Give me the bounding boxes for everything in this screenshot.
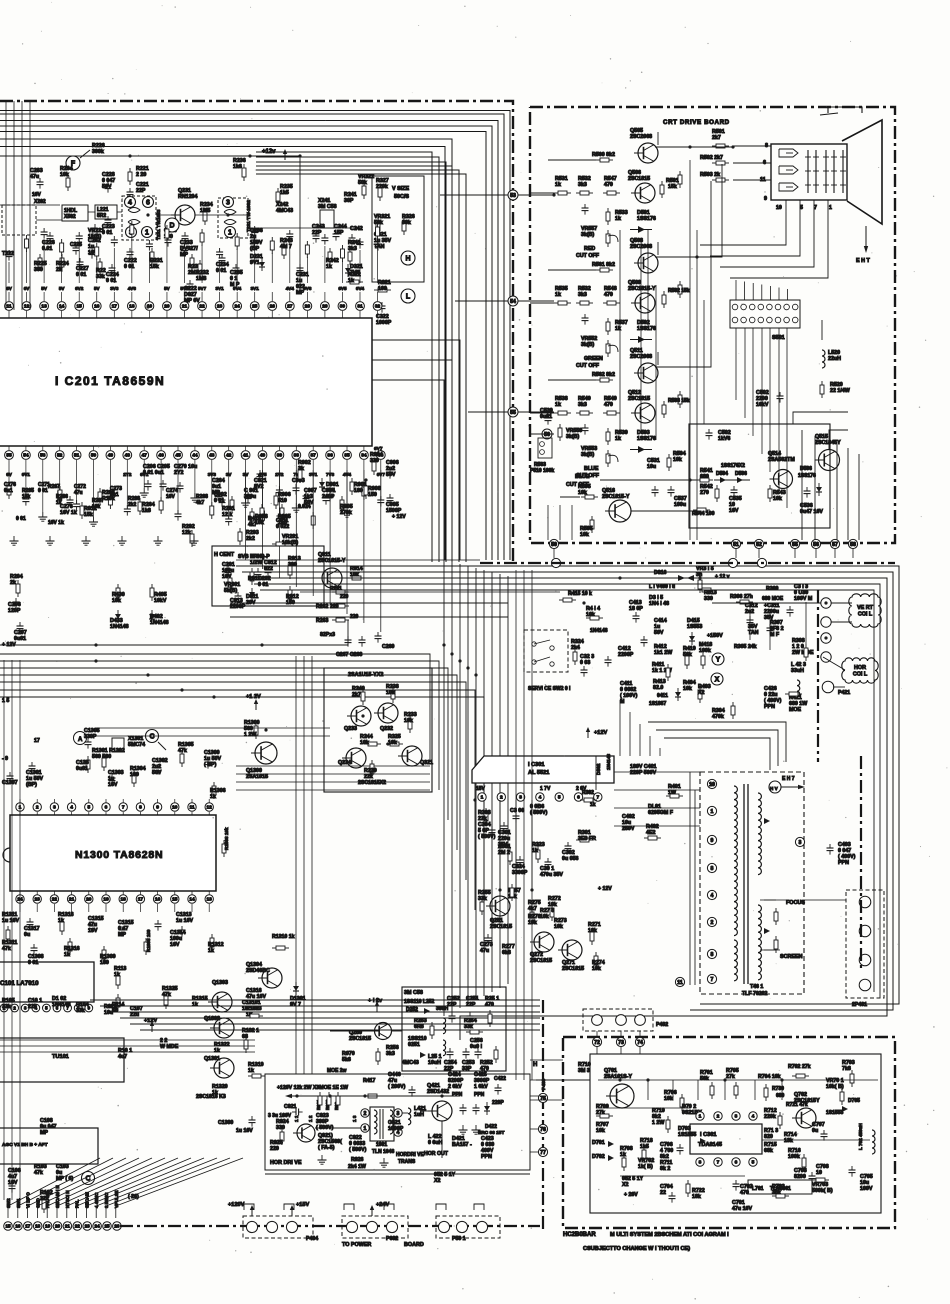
svg-text:D594: D594: [716, 471, 728, 477]
svg-text:2k2: 2k2: [246, 536, 255, 542]
transistor Q1301: [214, 1058, 234, 1078]
resistor R225 390: [39, 254, 41, 258]
svg-text:3k3: 3k3: [578, 402, 587, 408]
svg-text:2k: 2k: [10, 580, 16, 586]
transistor Q1303: [212, 992, 232, 1012]
svg-text:21: 21: [65, 1224, 71, 1229]
label EHT arrow: [865, 226, 867, 248]
svg-text:0u: 0u: [812, 1128, 818, 1134]
capacitor C262 1u 16V: [91, 248, 93, 252]
resistor R908 150: [365, 482, 367, 486]
svg-text:10k(B): 10k(B): [282, 540, 298, 546]
transistor Q515 2SC1845Y: [819, 450, 840, 471]
pot VR221 1k(B): [94, 224, 96, 228]
node D: [165, 218, 179, 232]
svg-text:X: X: [715, 677, 720, 684]
svg-text:Q232: Q232: [380, 726, 393, 732]
resistor R538 1k: [554, 412, 558, 414]
svg-text:0 01: 0 01: [216, 268, 226, 274]
transistor Q512 2SC1815: [635, 403, 655, 423]
svg-text:PPN: PPN: [481, 1154, 492, 1160]
capacitor C1305 330P: [87, 738, 89, 742]
svg-text:35: 35: [344, 453, 350, 459]
resistor R239 22k: [371, 760, 373, 764]
svg-text:47k: 47k: [178, 748, 187, 754]
wire right chain mid: [860, 756, 862, 968]
svg-text:11: 11: [677, 980, 683, 986]
resistor R322 1k: [346, 281, 350, 283]
svg-text:P602: P602: [386, 1236, 398, 1242]
N1300 TA8628N PAL/SECAM IC: [10, 815, 216, 891]
svg-text:R305 24k: R305 24k: [734, 644, 757, 650]
svg-text:29: 29: [322, 304, 328, 310]
svg-text:10kV: 10kV: [154, 598, 167, 604]
svg-text:3V: 3V: [226, 472, 233, 477]
transistor Q505 2SC2068: [638, 143, 658, 163]
resistor R113 1k: [117, 972, 119, 976]
wire left edge verticals lower: [3, 660, 5, 1200]
IC301 AL5521: [472, 756, 614, 783]
P402 connector: [583, 1009, 653, 1031]
svg-text:10k: 10k: [112, 598, 121, 604]
resistor channel pull 1: [679, 281, 681, 285]
wire horizontal bus mid: [0, 654, 430, 760]
svg-text:R593 15k: R593 15k: [668, 398, 690, 404]
capacitor C921 8V2: [259, 470, 261, 474]
svg-text:2k2: 2k2: [128, 502, 137, 508]
resistor R234 1M5: [204, 208, 206, 212]
svg-text:4: 4: [70, 805, 73, 811]
svg-text:L: L: [406, 294, 411, 301]
chain vertical right mid: [817, 590, 819, 762]
sub-board chain border bottom right: [563, 1037, 895, 1228]
svg-text:Q233: Q233: [344, 726, 357, 732]
svg-text:HC2B0BAR: HC2B0BAR: [563, 1232, 596, 1238]
pin 4 circle: [394, 1128, 402, 1136]
CRT cathode 3: [779, 183, 798, 191]
resistor R240 2k7: [362, 688, 364, 692]
svg-text:270k: 270k: [340, 510, 352, 516]
svg-text:1000P: 1000P: [376, 320, 392, 326]
svg-text:R417: R417: [363, 1078, 376, 1084]
svg-text:100k: 100k: [699, 648, 711, 654]
outer box V-size: [372, 176, 424, 282]
wire vert coil links: [831, 602, 852, 604]
svg-text:2200P: 2200P: [618, 652, 634, 658]
resistor R326 39k: [403, 218, 405, 222]
svg-text:TLN 1046: TLN 1046: [372, 1149, 394, 1155]
wire horizontal bus mid1: [0, 620, 348, 645]
svg-text:390: 390: [288, 562, 297, 568]
svg-text:4u7: 4u7: [118, 1054, 127, 1060]
svg-text:0u01: 0u01: [76, 766, 88, 772]
resistor R913 390: [289, 562, 291, 566]
svg-text:+150V: +150V: [707, 633, 723, 639]
svg-text:50V: 50V: [304, 500, 314, 506]
svg-text:0V: 0V: [6, 472, 13, 477]
svg-text:19: 19: [103, 897, 109, 903]
svg-text:2SC1815X2: 2SC1815X2: [358, 780, 386, 786]
pin 3 circle: [394, 1109, 402, 1117]
wire nested right corners: [793, 412, 848, 424]
svg-text:1N4148: 1N4148: [110, 624, 129, 630]
capacitor C235 0.1 MP: [235, 264, 237, 268]
capacitor C222b: [189, 280, 191, 284]
wire channel feed: [530, 302, 554, 304]
svg-text:3M C58: 3M C58: [404, 990, 423, 996]
svg-text:56k: 56k: [700, 1076, 709, 1082]
svg-text:50V: 50V: [654, 630, 664, 636]
svg-text:10k: 10k: [554, 924, 563, 930]
svg-text:TRANS: TRANS: [398, 1159, 416, 1165]
svg-text:1SS110 L252: 1SS110 L252: [404, 999, 435, 1005]
label +12V ic301: [587, 730, 589, 738]
svg-text:0V6: 0V6: [303, 286, 312, 291]
resistor R531 1k: [554, 192, 558, 194]
svg-text:H CENT: H CENT: [214, 552, 235, 558]
svg-text:0 01: 0 01: [124, 264, 134, 270]
svg-text:TU101: TU101: [52, 1054, 69, 1060]
svg-text:23: 23: [35, 897, 41, 903]
svg-text:+ 12V: + 12V: [598, 886, 612, 892]
svg-text:P421: P421: [838, 690, 850, 696]
svg-text:10k: 10k: [773, 496, 782, 502]
CRT cathode 1: [779, 149, 798, 157]
svg-text:R309: R309: [766, 586, 779, 592]
svg-text:R263: R263: [316, 618, 329, 624]
resistor R238 10k: [392, 686, 394, 690]
resistor R271 10k: [591, 928, 593, 932]
svg-text:3k3: 3k3: [578, 182, 587, 188]
bottom connector pin row: [4, 1222, 13, 1231]
resistor R592 15k: [663, 291, 665, 295]
svg-text:2SA1015: 2SA1015: [246, 774, 268, 780]
node 76: [538, 1124, 547, 1133]
wire EHT riser: [821, 320, 823, 340]
svg-text:7k8: 7k8: [842, 1066, 851, 1072]
svg-text:R592 15k: R592 15k: [668, 288, 690, 294]
svg-text:0u47 16V: 0u47 16V: [800, 509, 823, 515]
svg-text:27: 27: [287, 304, 293, 310]
svg-text:C3 06: C3 06: [510, 808, 524, 814]
svg-text:4: 4: [752, 1114, 755, 1120]
capacitor C283 47u 16V: [39, 178, 41, 182]
capacitor C302 0u056: [567, 842, 569, 846]
svg-text:T46 1: T46 1: [750, 984, 763, 990]
IC301 pins: [478, 793, 486, 801]
svg-text:24: 24: [95, 1224, 101, 1229]
svg-text:17: 17: [34, 738, 40, 744]
svg-text:1: 1: [228, 230, 232, 237]
svg-text:S501: S501: [772, 335, 785, 341]
svg-text:0 01: 0 01: [102, 230, 112, 236]
wire +12V rail top: [0, 155, 300, 157]
svg-text:6: 6: [577, 795, 580, 801]
wire long mid verticals right: [515, 570, 517, 1080]
svg-text:C1309: C1309: [218, 1120, 233, 1126]
svg-text:470: 470: [604, 292, 613, 298]
svg-text:100: 100: [378, 286, 387, 292]
svg-text:RED: RED: [584, 246, 595, 252]
capacitor C313 cap: [789, 606, 791, 610]
svg-text:3k(B): 3k(B): [581, 452, 594, 458]
svg-text:+120V 12k 2W X3MOE 1E 1W: +120V 12k 2W X3MOE 1E 1W: [277, 1085, 348, 1091]
capacitor C224 0.01: [111, 264, 113, 268]
transistor Q272 2SC1815: [534, 932, 554, 952]
label +120V: [251, 1208, 253, 1216]
svg-text:24: 24: [234, 304, 240, 310]
N1300 bottom pins: [16, 895, 24, 903]
svg-text:1M5: 1M5: [200, 208, 210, 214]
svg-text:6V5: 6V5: [338, 286, 347, 291]
svg-text:12: 12: [24, 304, 30, 310]
svg-text:MOE: MOE: [789, 707, 802, 713]
svg-text:0 01: 0 01: [214, 498, 224, 504]
resistor R22 33k: [99, 258, 101, 262]
svg-text:10k: 10k: [388, 740, 397, 746]
N1300 top pins: [16, 803, 24, 811]
svg-text:22: 22: [75, 1224, 81, 1229]
resistor R321 100: [374, 289, 378, 291]
pot VR553 3k(B): [607, 450, 609, 454]
svg-text:1S1555: 1S1555: [826, 1110, 843, 1116]
svg-text:022: 022: [264, 566, 273, 572]
svg-text:V SIZE: V SIZE: [392, 186, 409, 192]
svg-text:2SC1815: 2SC1815: [628, 176, 650, 182]
wire mid verticals to hor drive: [295, 656, 297, 1074]
svg-text:6V4: 6V4: [356, 286, 365, 291]
svg-text:2: 2: [717, 1114, 720, 1120]
tuner AGC box: [0, 1128, 98, 1164]
svg-text:15k: 15k: [668, 184, 677, 190]
wire L421 to Q421: [420, 1110, 432, 1112]
resistor R235 1k5: [277, 188, 279, 192]
svg-text:R302: R302: [582, 790, 594, 796]
wire nested loop inner: [254, 584, 880, 998]
svg-text:10k: 10k: [596, 1128, 605, 1134]
capacitor C267: [347, 636, 349, 640]
wire CRT cathode feeds: [733, 145, 771, 147]
svg-text:5V: 5V: [59, 286, 66, 291]
svg-text:22P: 22P: [466, 1002, 476, 1008]
svg-text:56: 56: [544, 432, 550, 438]
wire hor section box: [265, 1074, 530, 1170]
node 55: [508, 407, 518, 417]
resistor R1300 560 1/2W: [255, 722, 257, 726]
svg-text:1k: 1k: [615, 216, 621, 222]
T461 pin 2: [707, 917, 716, 926]
svg-text:3300P: 3300P: [512, 870, 528, 876]
svg-text:4V4: 4V4: [286, 286, 295, 291]
capacitor C903: [295, 484, 297, 488]
diode D422: [486, 1102, 488, 1106]
wire horizontal bus mid: [0, 690, 475, 910]
svg-text:8: 8: [711, 952, 714, 958]
svg-text:5MC74: 5MC74: [128, 742, 145, 748]
svg-text:COI L: COI L: [858, 612, 873, 618]
resistor R1301 560: [87, 756, 89, 760]
svg-text:6R8: 6R8: [414, 1024, 424, 1030]
svg-text:9: 9: [764, 196, 767, 202]
svg-text:1SS176: 1SS176: [637, 326, 656, 332]
capacitor C537 100u: [670, 486, 672, 490]
svg-text:- 9: - 9: [2, 756, 8, 762]
svg-text:10k: 10k: [580, 532, 589, 538]
resistor R532 3k3: [576, 302, 580, 304]
svg-text:220k: 220k: [376, 184, 388, 190]
svg-text:2SC2068: 2SC2068: [630, 134, 652, 140]
svg-text:Q1301: Q1301: [204, 1056, 220, 1062]
svg-text:FOCUS: FOCUS: [786, 900, 805, 906]
transistor Q233: [351, 706, 371, 726]
svg-text:220: 220: [270, 1146, 279, 1152]
resistor R231 15k: [151, 248, 153, 252]
capacitor hor out 1: [462, 1104, 464, 1108]
diode D231: [261, 258, 263, 262]
svg-text:2SA101S-Y: 2SA101S-Y: [604, 1074, 632, 1080]
svg-text:X502: X502: [64, 214, 76, 220]
resistor R323 1k: [537, 846, 539, 850]
wire vertical risers from connectors: [553, 549, 555, 558]
resistor R241 3k3: [349, 248, 351, 252]
svg-text:COI L: COI L: [853, 672, 868, 678]
resistor R562 8k2: [596, 379, 600, 381]
svg-text:1 1: 1 1: [294, 1115, 299, 1122]
resistor R560 8k2: [596, 159, 600, 161]
node 74: [635, 1037, 644, 1046]
svg-text:2: 2: [36, 805, 39, 811]
svg-text:( FA-5): ( FA-5): [318, 1145, 335, 1151]
svg-text:T231 TW1083: T231 TW1083: [156, 209, 162, 240]
resistor R1316 1k: [69, 938, 71, 942]
tuner can T222: [2, 205, 36, 235]
wire horizontal mid long1: [230, 602, 508, 604]
svg-text:PPN: PPN: [764, 704, 775, 710]
svg-text:SERVI CE SW2 0 I: SERVI CE SW2 0 I: [528, 686, 571, 692]
svg-text:1u 16V: 1u 16V: [242, 1006, 260, 1012]
wire chain below crt: [480, 562, 895, 564]
svg-text:32: 32: [375, 304, 381, 310]
svg-text:18k: 18k: [692, 1194, 701, 1200]
capacitor C322 1000P: [381, 302, 383, 306]
resistor R325 10k: [386, 743, 390, 745]
svg-text:51: 51: [74, 453, 80, 459]
svg-text:R721 47k: R721 47k: [786, 1102, 808, 1108]
wire inner corner bundle: [256, 152, 432, 562]
svg-text:SCREEN: SCREEN: [780, 954, 803, 960]
capacitor C222 0.01: [129, 248, 131, 252]
svg-text:76: 76: [540, 1127, 546, 1133]
resistor R593 15k: [663, 401, 665, 405]
svg-text:330: 330: [370, 458, 379, 464]
T461 primary winding lower: [734, 940, 737, 981]
svg-text:1 2: 1 2: [308, 1115, 313, 1122]
svg-text:P404: P404: [306, 1236, 318, 1242]
svg-text:50k: 50k: [374, 220, 383, 226]
junction dots: [248, 154, 251, 157]
svg-text:D316: D316: [654, 570, 667, 576]
crystal X1301 5MC74: [112, 738, 124, 752]
wire crt board bottom drops: [547, 505, 549, 540]
svg-text:2SC1815: 2SC1815: [628, 396, 650, 402]
wire EHT arrow: [781, 786, 800, 788]
svg-text:+ 12V: + 12V: [392, 514, 406, 520]
svg-text:1SS176: 1SS176: [798, 473, 816, 479]
svg-text:5k6: 5k6: [342, 1057, 351, 1063]
svg-text:X2: X2: [622, 1182, 629, 1188]
resistor R292 12k: [191, 530, 193, 534]
svg-text:470: 470: [604, 402, 613, 408]
svg-text:0u 056: 0u 056: [562, 856, 579, 862]
svg-text:PPN: PPN: [838, 860, 849, 866]
svg-text:2200P: 2200P: [230, 604, 246, 610]
svg-text:AL 5521: AL 5521: [528, 770, 549, 776]
svg-text:1: 1: [481, 795, 484, 801]
capacitor C904 240P: [325, 494, 327, 498]
inductor L701 TLN3061: [748, 1180, 812, 1194]
wire channel vertical rails: [689, 160, 691, 540]
svg-text:VPULSE: VPULSE: [114, 1190, 119, 1208]
svg-text:0u01: 0u01: [14, 636, 26, 642]
wire F arrow: [80, 150, 90, 158]
svg-text:15k: 15k: [22, 494, 31, 500]
svg-text:PPN: PPN: [452, 1092, 463, 1098]
svg-text:+120V: +120V: [228, 1202, 245, 1208]
svg-text:TDA8145: TDA8145: [698, 1142, 722, 1148]
svg-text:SW2: SW2: [6, 1198, 11, 1208]
svg-text:VE RT: VE RT: [857, 605, 874, 611]
svg-text:11: 11: [6, 304, 11, 310]
wire channel interconnect: [548, 159, 596, 161]
svg-text:470: 470: [604, 182, 613, 188]
resistor R221 2 20: [129, 168, 131, 172]
svg-text:3: 3: [226, 200, 230, 207]
svg-text:10k: 10k: [360, 740, 369, 746]
svg-text:16: 16: [94, 304, 100, 310]
svg-text:39k: 39k: [402, 220, 411, 226]
IC201 top pin risers: [8, 262, 10, 283]
wire hor top rail: [330, 1095, 460, 1097]
svg-text:L 702 450uH: L 702 450uH: [858, 1123, 863, 1150]
resistor channel pull 0: [679, 171, 681, 175]
svg-text:34: 34: [361, 453, 367, 459]
svg-text:52: 52: [756, 542, 762, 548]
wire left verticals: [5, 101, 7, 310]
resistor R535 1k: [554, 302, 558, 304]
svg-text:22 1/4W: 22 1/4W: [830, 388, 850, 394]
crystal X241 3MC58: [320, 210, 334, 228]
node 56: [542, 429, 552, 439]
svg-text:13k: 13k: [784, 1138, 793, 1144]
transistor Q508 2SC2068: [638, 253, 658, 273]
resistor R561 8k2: [596, 269, 600, 271]
svg-text:47u: 47u: [74, 490, 83, 496]
capacitor C206 120P: [15, 598, 17, 602]
resistor R233 2M2: [191, 254, 193, 258]
svg-text:33P: 33P: [462, 1066, 472, 1072]
svg-text:5k(B): 5k(B): [224, 588, 237, 594]
svg-text:CUT OFF: CUT OFF: [576, 253, 600, 259]
IC361 TDA8145: [690, 1124, 762, 1154]
IC201 top pin row: [5, 302, 14, 311]
svg-text:10k: 10k: [350, 572, 359, 578]
svg-text:P402: P402: [656, 1022, 668, 1028]
resistor R224 2k: [61, 254, 63, 258]
svg-text:1k: 1k: [555, 402, 561, 408]
wire fan to bottom connector: [8, 1158, 100, 1218]
svg-text:R911: R911: [248, 576, 260, 582]
label +12V tuner: [151, 1024, 153, 1032]
